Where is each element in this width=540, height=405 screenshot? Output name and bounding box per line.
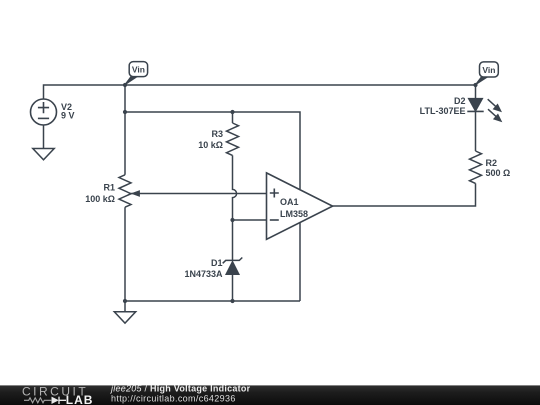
wire middle column D1 to bottom rail	[232, 275, 234, 302]
svg-text:1N4733A: 1N4733A	[184, 269, 223, 279]
wire op-amp - input	[233, 219, 267, 221]
node dot left column second rail	[123, 110, 127, 114]
svg-text:D1: D1	[211, 258, 223, 268]
svg-text:jlee205 / High Voltage Indicat: jlee205 / High Voltage Indicator	[110, 384, 251, 394]
wire middle column R3 to D1	[233, 155, 237, 260]
node dot at Vin flag left	[123, 83, 127, 87]
svg-text:Vin: Vin	[132, 65, 145, 75]
wire left column upper	[124, 85, 126, 175]
svg-text:D2: D2	[454, 96, 466, 106]
wire ground stub bottom left	[124, 301, 126, 312]
resistor R1 (potentiometer)	[119, 175, 131, 207]
svg-text:LTL-307EE: LTL-307EE	[420, 106, 466, 116]
wire middle column R3 top lead	[232, 112, 234, 123]
op-amp OA1 LM358	[267, 173, 333, 239]
node dot at Vin flag right	[473, 83, 477, 87]
logo doodle wire	[24, 398, 51, 403]
wire wiper to op-amp + input with hop over middle column	[131, 193, 267, 195]
logo doodle diode	[52, 397, 59, 404]
net flag Vin (left)	[124, 62, 147, 86]
wire bottom ground rail	[125, 300, 300, 302]
svg-text:LM358: LM358	[280, 209, 308, 219]
svg-text:9 V: 9 V	[61, 111, 75, 121]
net flag Vin (right)	[475, 62, 499, 86]
wire left column lower	[124, 207, 126, 301]
zener diode D1 (1N4733A)	[223, 258, 243, 275]
op-amp + input marker	[270, 189, 279, 198]
wire R2 top to D2 cathode	[475, 111, 477, 151]
svg-text:R2: R2	[486, 158, 498, 168]
node dot bottom rail middle	[230, 299, 234, 303]
wire op-amp V- to ground rail	[299, 223, 301, 301]
svg-text:R3: R3	[211, 129, 223, 139]
svg-text:100 kΩ: 100 kΩ	[85, 194, 115, 204]
svg-text:10 kΩ: 10 kΩ	[198, 140, 223, 150]
wire second rail to op-amp V+	[125, 112, 300, 189]
node dot reference to - input	[230, 218, 234, 222]
wire D2 anode to top rail	[475, 85, 477, 99]
resistor R2	[470, 151, 482, 183]
potentiometer wiper arrow R1	[131, 190, 140, 197]
svg-text:Vin: Vin	[482, 65, 495, 75]
node dot R3 top	[230, 110, 234, 114]
LED arrow 1	[488, 99, 496, 106]
resistor R3	[227, 123, 239, 155]
svg-text:LAB: LAB	[66, 393, 94, 405]
svg-text:R1: R1	[103, 182, 115, 192]
LED arrow 2	[488, 109, 496, 116]
op-amp - input marker	[270, 219, 279, 221]
voltage source V2	[31, 99, 57, 125]
svg-text:OA1: OA1	[280, 197, 299, 207]
node dot bottom rail left	[123, 299, 127, 303]
wire top rail Vin	[44, 85, 476, 99]
svg-text:http://circuitlab.com/c642936: http://circuitlab.com/c642936	[111, 393, 236, 403]
LED D2 (LTL-307EE)	[467, 98, 502, 122]
ground (V2)	[33, 149, 54, 160]
svg-text:500 Ω: 500 Ω	[486, 168, 511, 178]
wire V2 negative to ground	[43, 125, 45, 149]
ground (bottom left)	[114, 312, 135, 323]
wire op-amp output to R2	[333, 183, 476, 206]
